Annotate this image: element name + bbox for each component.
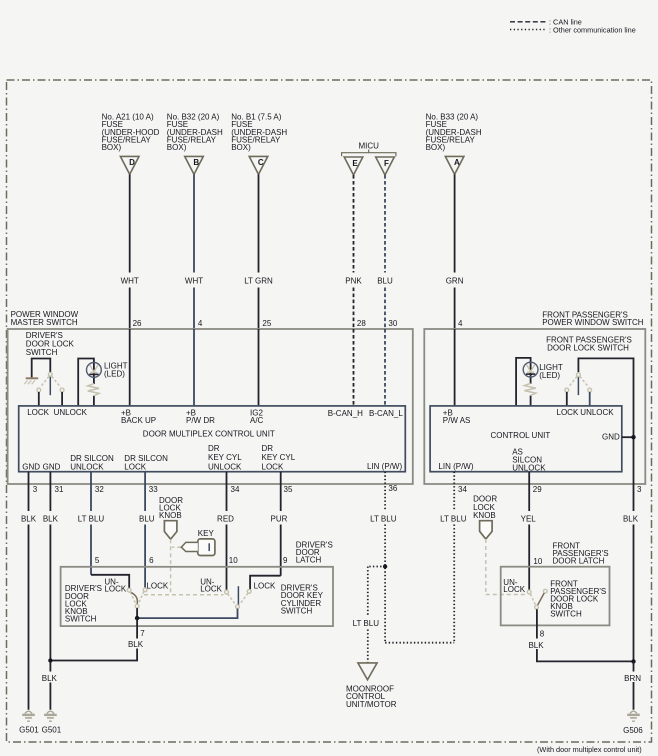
svg-text:4: 4: [198, 319, 203, 328]
door lock knob label right: [473, 495, 497, 521]
wire BRN to ground G506: [633, 661, 635, 709]
svg-text:LOCK: LOCK: [557, 408, 579, 417]
driver's door lock knob switch label: [65, 584, 102, 623]
svg-text:KEY: KEY: [198, 529, 215, 538]
svg-text:29: 29: [533, 485, 542, 494]
svg-text:LOCK: LOCK: [146, 581, 168, 590]
wire BLK passenger latch pin8: [537, 609, 634, 661]
svg-text:C: C: [258, 158, 264, 167]
svg-text:LT BLU: LT BLU: [440, 514, 467, 523]
wire U4 GND to junction: [622, 436, 634, 438]
svg-text:LOCK: LOCK: [254, 582, 276, 591]
connector triangle B: [185, 156, 204, 174]
door lock knob label left: [159, 496, 183, 520]
svg-text:LIN (P/W): LIN (P/W): [367, 462, 402, 471]
driver knob switch UN-LOCK label: [104, 577, 126, 593]
svg-text:F: F: [384, 159, 389, 168]
svg-text:WHT: WHT: [185, 276, 203, 285]
connector triangle F: [376, 157, 395, 175]
svg-text:GND: GND: [43, 462, 61, 471]
junction GND node: [631, 435, 635, 439]
svg-text:BLK: BLK: [128, 640, 144, 649]
svg-text:(LED): (LED): [104, 369, 125, 378]
power window master switch box U1: [8, 329, 413, 484]
legend other-communication line sample: [510, 29, 547, 31]
svg-text:LATCH: LATCH: [296, 556, 322, 565]
SW2 LOCK contact: [565, 388, 569, 392]
wire pin4 to +B P/W DR: [193, 329, 195, 406]
svg-text:DR: DR: [262, 444, 274, 453]
connector triangle C: [249, 156, 268, 174]
front passenger's door lock knob switch label: [550, 580, 606, 619]
driver's door lock switch SW1 top bracket: [32, 359, 51, 378]
svg-text:(LED): (LED): [539, 371, 560, 380]
wire resistor to control unit: [93, 396, 95, 406]
svg-text:UNLOCK: UNLOCK: [512, 463, 546, 472]
svg-text:KEY CYL: KEY CYL: [208, 453, 242, 462]
LED D2 cathode bar: [526, 373, 535, 375]
wire WHT from fuse D to pin 26: [129, 174, 131, 329]
svg-text:BOX): BOX): [426, 143, 446, 152]
svg-text:GRN: GRN: [446, 276, 464, 285]
key cyl switch LOCK contact: [247, 590, 251, 594]
LED D1 circle: [87, 363, 102, 378]
wire BLK latch pin7 down: [50, 618, 137, 660]
driver's door lock switch ground hatch: [24, 378, 38, 384]
svg-text:SWITCH: SWITCH: [550, 610, 582, 619]
svg-text:6: 6: [149, 556, 154, 565]
svg-text:UNLOCK: UNLOCK: [54, 408, 88, 417]
svg-text:DOOR MULTIPLEX CONTROL UNIT: DOOR MULTIPLEX CONTROL UNIT: [143, 430, 275, 439]
svg-text:B-CAN_L: B-CAN_L: [369, 409, 403, 418]
driver's door lock switch lever dashed arms: [40, 376, 60, 387]
fuse B1 value label: [231, 113, 287, 152]
legend CAN line sample: [510, 21, 547, 23]
svg-text:LOCK: LOCK: [104, 585, 126, 594]
svg-text:B-CAN_H: B-CAN_H: [328, 409, 363, 418]
svg-text:26: 26: [133, 319, 142, 328]
svg-text:35: 35: [284, 485, 293, 494]
svg-text:8: 8: [540, 629, 545, 638]
passenger knob switch UN-LOCK label: [503, 578, 525, 594]
svg-text:A/C: A/C: [250, 416, 264, 425]
wire latch pin5 to UN-LOCK contact: [91, 575, 129, 588]
wire WHT from fuse B to pin 4: [193, 174, 195, 329]
fuse A21 value label: [102, 113, 160, 152]
connector triangle E: [344, 157, 363, 175]
front passenger's door lock switch SW2 bracket and wire to GND junction: [578, 358, 633, 661]
wire PNK CAN dashed from MICU E to pin 28: [353, 175, 355, 329]
svg-text:SWITCH: SWITCH: [65, 615, 97, 624]
junction G506 node: [631, 659, 635, 663]
U3 pin DR KEY CYL UNLOCK label: [208, 444, 242, 472]
svg-text:10: 10: [229, 556, 238, 565]
driver knob switch common contact: [135, 604, 139, 608]
svg-text:DOOR LOCK SWITCH: DOOR LOCK SWITCH: [547, 343, 629, 352]
driver knob switch UN-LOCK contact: [127, 588, 131, 592]
wire latch pin9 to key cyl LOCK contact: [250, 576, 281, 590]
svg-text:D: D: [129, 158, 135, 167]
svg-text:UNLOCK: UNLOCK: [580, 408, 614, 417]
LED D2 circle: [523, 362, 538, 377]
wire pin30 to B-CAN_L dashed: [384, 329, 386, 406]
wire BLK pin3 to ground G501: [28, 472, 30, 710]
LED D1 V symbol: [90, 365, 98, 373]
wire PUR pin35 to latch pin9: [280, 472, 282, 576]
svg-text:10: 10: [533, 557, 542, 566]
wire BLU CAN dashed from MICU F to pin 30: [384, 175, 386, 329]
driver's door key cylinder switch label: [281, 584, 324, 616]
U3 pin DR SILCON UNLOCK label: [70, 454, 114, 471]
svg-text:LT BLU: LT BLU: [370, 514, 397, 523]
passenger knob switch lever: [538, 593, 545, 605]
wire LT BLU LIN dotted pin36: [384, 472, 386, 643]
U4 pin +B P/W AS label: [443, 409, 471, 426]
svg-text:BRN: BRN: [624, 674, 641, 683]
svg-text:MICU: MICU: [358, 141, 379, 150]
wire UNLOCK contact to control unit: [61, 392, 63, 406]
svg-text:KNOB: KNOB: [473, 511, 496, 520]
wire knob common to junction: [136, 608, 138, 618]
LED branch wire right box: [516, 358, 531, 406]
wire BLU pin33 to latch pin6: [144, 472, 146, 588]
svg-text:GND: GND: [602, 432, 620, 441]
wire key cyl common to knob common junction: [137, 609, 237, 619]
svg-text:YEL: YEL: [521, 514, 537, 523]
U4 pin AS SILCON UNLOCK label: [512, 447, 546, 472]
wire SW2 LOCK contact to control unit: [566, 392, 568, 406]
svg-text:30: 30: [388, 319, 397, 328]
ground G506 symbol: [627, 711, 640, 721]
driver's door lock switch label: [26, 331, 75, 357]
svg-text:BLU: BLU: [139, 514, 155, 523]
wire LT GRN from fuse C to pin 25: [258, 174, 260, 329]
LIGHT (LED) label left: [104, 361, 128, 378]
key symbol: [181, 539, 215, 556]
svg-text:33: 33: [149, 485, 158, 494]
driver knob switch lever: [131, 593, 137, 605]
SW2 lever: [577, 377, 579, 395]
key cyl switch UN-LOCK label: [200, 577, 222, 593]
svg-text:LOCK: LOCK: [262, 462, 284, 471]
svg-text:KEY CYL: KEY CYL: [262, 453, 296, 462]
wire pin26 to +B BACK UP: [129, 329, 131, 406]
SW2 UNLOCK contact: [588, 388, 592, 392]
svg-text:BLU: BLU: [377, 276, 393, 285]
connector triangle A: [445, 156, 464, 174]
driver's door latch box: [61, 567, 333, 626]
U3 pin DR KEY CYL LOCK label: [262, 444, 296, 472]
wire BLK pin31 to ground G501: [49, 472, 51, 710]
wire LT BLU pin32 to latch pin5: [90, 472, 92, 575]
svg-text:: Other communication line: : Other communication line: [549, 25, 636, 34]
driver knob switch dashed arms: [130, 591, 144, 604]
wire YEL pin29 to passenger latch: [528, 472, 530, 590]
passenger knob switch common contact: [535, 605, 539, 609]
key cyl switch UN-LOCK contact: [225, 590, 229, 594]
front passenger's power window switch box U2: [424, 329, 645, 484]
LED D1 cathode bar: [89, 373, 98, 375]
svg-text:BLK: BLK: [528, 641, 544, 650]
svg-text:UNLOCK: UNLOCK: [70, 462, 104, 471]
svg-text:BOX): BOX): [167, 143, 187, 152]
key cyl switch dashed arms: [228, 593, 248, 604]
svg-text:BLK: BLK: [623, 514, 639, 523]
svg-text:3: 3: [33, 485, 38, 494]
door lock knob symbol right: [480, 521, 493, 539]
wire RED pin34 to latch pin10: [226, 472, 228, 590]
svg-text:5: 5: [95, 556, 100, 565]
MICU bracket: [342, 150, 396, 157]
wire pin4 to +B P/W AS: [454, 329, 456, 406]
svg-text:LT BLU: LT BLU: [78, 514, 105, 523]
LED D2 V symbol: [526, 364, 534, 372]
driver's door lock switch lever: [49, 376, 51, 395]
svg-text:3: 3: [637, 485, 642, 494]
svg-text:BOX): BOX): [102, 143, 122, 152]
wire resistor2 to control unit: [530, 396, 532, 406]
U3 pin IG2 A/C label: [250, 409, 264, 426]
key cyl switch lever: [237, 586, 239, 604]
svg-text:BOX): BOX): [231, 143, 251, 152]
front passenger's power window switch box label: [542, 310, 644, 327]
resistor R2 zigzag: [524, 383, 535, 395]
moonroof control unit/motor label: [346, 685, 397, 709]
svg-text:WHT: WHT: [121, 276, 139, 285]
junction G501 node: [48, 658, 52, 662]
mechanical dashed link knob to switches left: [144, 539, 224, 595]
svg-text:A: A: [454, 158, 460, 167]
svg-text:GND: GND: [22, 462, 40, 471]
svg-text:31: 31: [55, 485, 64, 494]
passenger knob switch UN-LOCK contact: [527, 590, 531, 594]
svg-text:LOCK: LOCK: [27, 408, 49, 417]
svg-text:SWITCH: SWITCH: [26, 348, 58, 357]
svg-text:G501: G501: [19, 725, 39, 734]
svg-text:BACK UP: BACK UP: [121, 416, 156, 425]
wire LOCK contact to control unit: [38, 392, 40, 406]
svg-text:LOCK: LOCK: [124, 462, 146, 471]
svg-text:E: E: [352, 159, 358, 168]
LED branch wire left box: [78, 359, 94, 406]
svg-text:RED: RED: [217, 514, 234, 523]
ground G501 symbol 2: [44, 711, 57, 721]
svg-text:BLK: BLK: [42, 674, 58, 683]
wire dotted LIN branch to moonroof: [368, 567, 385, 663]
svg-text:34: 34: [231, 485, 240, 494]
ground G501 symbol 1: [22, 711, 35, 721]
fuse B32 value label: [167, 113, 223, 152]
svg-text:34: 34: [458, 485, 467, 494]
svg-text:KNOB: KNOB: [159, 511, 182, 520]
svg-text:G501: G501: [42, 725, 62, 734]
svg-text:CONTROL UNIT: CONTROL UNIT: [491, 431, 551, 440]
driver's door lock switch UNLOCK contact: [60, 388, 64, 392]
driver's door latch label: [296, 540, 333, 564]
svg-text:LT BLU: LT BLU: [353, 619, 380, 628]
U3 pin DR SILCON LOCK label: [124, 454, 168, 471]
front passenger's door lock switch label: [546, 335, 632, 352]
svg-text:7: 7: [140, 629, 145, 638]
wire pin25 to IG2 A/C: [258, 329, 260, 406]
wire pin28 to B-CAN_H dashed: [353, 329, 355, 406]
connector triangle D: [120, 156, 139, 174]
wire SW2 UNLOCK contact to control unit: [589, 392, 591, 406]
SW2 lever dashed arms: [568, 376, 588, 387]
fuse B33 value label: [426, 113, 482, 152]
power window master switch box label: [11, 310, 79, 327]
LIGHT (LED) label right: [539, 363, 563, 380]
svg-text:DR: DR: [208, 444, 220, 453]
wire GRN from fuse A to pin 4 (right box): [454, 174, 456, 329]
svg-text:28: 28: [357, 319, 366, 328]
svg-text:PUR: PUR: [271, 514, 288, 523]
control unit box U4: [430, 406, 622, 472]
svg-text:BLK: BLK: [21, 514, 37, 523]
svg-text:9: 9: [283, 556, 288, 565]
connector triangle moonroof: [358, 663, 377, 680]
mechanical dashed link knob to passenger switch: [486, 539, 527, 595]
svg-text:BLK: BLK: [43, 514, 59, 523]
svg-text:4: 4: [458, 319, 463, 328]
junction LIN node: [383, 564, 387, 568]
svg-text:MASTER SWITCH: MASTER SWITCH: [11, 318, 78, 327]
svg-text:25: 25: [262, 319, 271, 328]
svg-text:B: B: [193, 158, 199, 167]
svg-text:32: 32: [95, 485, 104, 494]
svg-text:36: 36: [388, 484, 397, 493]
driver's door lock switch common contact: [48, 372, 52, 376]
front passenger's door latch label: [553, 541, 609, 565]
junction latch common node: [135, 616, 139, 620]
svg-text:P/W DR: P/W DR: [186, 416, 215, 425]
U3 pin +B BACK UP label: [121, 409, 156, 426]
svg-text:POWER WINDOW SWITCH: POWER WINDOW SWITCH: [542, 318, 644, 327]
U3 pin +B P/W DR label: [186, 409, 215, 426]
svg-text:SWITCH: SWITCH: [281, 606, 313, 615]
svg-text:LIN (P/W): LIN (P/W): [438, 462, 473, 471]
svg-text:DOOR LATCH: DOOR LATCH: [553, 556, 605, 565]
svg-text:UNLOCK: UNLOCK: [208, 462, 242, 471]
key cyl switch common contact: [236, 605, 240, 609]
door multiplex control unit box U3: [19, 406, 406, 472]
svg-text:LOCK: LOCK: [200, 585, 222, 594]
passenger knob switch open contact: [543, 589, 547, 593]
resistor R1 zigzag: [88, 384, 99, 396]
SW2 common contact: [577, 373, 581, 377]
svg-text:UNIT/MOTOR: UNIT/MOTOR: [346, 700, 397, 709]
passenger knob switch dashed arm: [530, 594, 535, 605]
svg-text:PNK: PNK: [345, 276, 362, 285]
svg-text:P/W AS: P/W AS: [443, 416, 471, 425]
svg-text:(With door multiplex control u: (With door multiplex control unit): [537, 745, 642, 754]
svg-text:LT GRN: LT GRN: [244, 276, 273, 285]
svg-text:LOCK: LOCK: [503, 585, 525, 594]
wire LT BLU LIN dotted pin34 right: [453, 472, 455, 643]
front passenger's door latch box: [501, 567, 610, 626]
svg-text:G506: G506: [623, 726, 643, 735]
driver's door lock switch LOCK contact: [37, 388, 41, 392]
wire dotted joining LIN lines: [385, 642, 454, 644]
door lock knob symbol left: [164, 521, 177, 540]
driver knob switch LOCK contact: [143, 588, 147, 592]
